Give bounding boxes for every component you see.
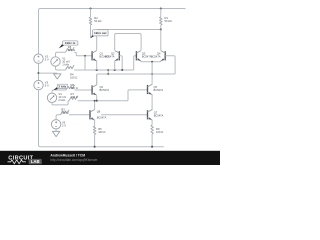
wire Q4 collector drop [160,30,162,51]
resistor R9 label [156,127,163,134]
wire R9 to bottom rail [151,134,153,147]
wire Q7 emitter down [151,120,153,125]
transistor Q6 label [100,85,110,92]
svg-text:BC547A: BC547A [154,113,164,117]
node R9 bottom junction [151,146,153,148]
resistor R3 label [61,108,68,115]
resistor R7 label [71,92,78,99]
transistor Q2 label [105,51,115,58]
transistor Q7 label [154,110,164,117]
ground G2 [52,131,59,136]
resistor R3 [61,110,70,115]
wire Q5 collector [151,83,153,85]
resistor R5 [93,126,96,135]
svg-text:100 Ω: 100 Ω [61,111,68,115]
transistor Q4 label [151,51,161,58]
node stub bottom [107,73,109,75]
wire Q2 emitter drop [114,61,116,70]
svg-text:BC547A: BC547A [105,54,115,58]
voltage source V2 label [45,54,49,61]
wire inner collector loop y=33 [115,34,141,51]
node tail / common rail junction [151,73,153,75]
svg-text:Q8: Q8 [97,110,101,114]
svg-text:BC547A: BC547A [154,88,164,92]
node junction riser/base [84,55,86,57]
node junction left rail / gnd branch [37,72,39,74]
wire Q3 emitter to Q4 emitter [141,60,161,63]
node Q1 emitter junction [96,69,98,71]
attribution line 2 [50,158,97,162]
resistor R2 lead upper [90,9,92,18]
circuitlab logo text CIRCUIT [8,155,33,161]
wire left rail V3 down to bottom rail [39,90,164,147]
resistor R4 label [70,73,77,80]
resistor R5 label [98,127,105,134]
node Q2 emitter junction [114,69,116,71]
wire R7 rail to corner [78,100,128,102]
transistor Q3 [136,51,141,61]
wire R3 to Q8 base [69,114,90,116]
transistor Q8 label name [97,110,101,114]
svg-text:BC547A: BC547A [97,115,107,119]
wire emitter rail up to Q3 base [134,56,137,70]
resistor R2 [89,17,92,25]
resistor R4 [66,65,75,70]
voltage source V2 [34,54,43,63]
ground G1 [54,74,61,79]
wire emitter rail [85,69,134,71]
voltage source V3 label [45,81,49,88]
svg-text:BC547A: BC547A [151,54,161,58]
resistor R2 lead lower [90,25,92,38]
voltage source V4 (signal) [47,93,56,102]
svg-text:1 kHz: 1 kHz [62,62,70,66]
wire Q2 base to right riser [119,56,122,70]
watermark bar background [0,151,220,165]
transistor Q8 [90,110,95,120]
node Q6 emitter junction [96,100,98,102]
svg-text:1kHz out: 1kHz out [94,31,106,35]
resistor R8 label [71,83,78,90]
wire R4 to base-node riser [74,69,85,71]
wire V1 bottom lead [56,66,66,70]
svg-text:5 V: 5 V [45,84,49,88]
transistor Q1 label [100,51,110,58]
wire Q7 base wire [101,114,148,116]
wire Q5 emitter down to Q7 collector [151,94,153,110]
svg-text:2 V: 2 V [62,123,66,127]
wire V4 bottom lead [52,101,69,105]
wire Q1 emitter drop [96,61,98,70]
svg-text:2 kHz: 2 kHz [58,98,66,102]
svg-text:5 V: 5 V [45,57,49,61]
svg-text:100 Ω: 100 Ω [98,130,105,134]
transistor Q1 [92,51,97,61]
voltage source V5 [51,120,60,129]
transistor Q6 [92,85,97,95]
wire outer collector loop y=29 [97,30,161,51]
transistor Q2 [115,51,120,61]
svg-text:50 kΩ: 50 kΩ [94,19,101,23]
node Q8 collector junction [94,100,96,102]
voltage source V3 [34,80,43,89]
resistor R1 lead upper [160,9,162,18]
resistor R7 [69,96,78,101]
resistor R6 [66,47,75,52]
wire R8 to Q6 base [75,89,93,91]
attribution line 1 [50,154,85,158]
resistor R2 label [94,16,101,23]
svg-text:50 kΩ: 50 kΩ [165,19,172,23]
circuitlab logo LAB box [29,159,42,164]
wire R6 to Q1 base (jog down) [74,52,92,56]
transistor Q4 [161,51,166,61]
wire gnd branch [39,72,58,74]
transistor Q5 label [154,85,164,92]
flag out (net flag on R2 bottom node) [91,30,109,38]
resistor R8 [66,85,75,90]
wire Q6 collector up to common rail [96,74,98,85]
wire R1 to node A [160,25,162,30]
wire stub between rails [107,70,109,74]
transistor Q7 [148,110,153,120]
svg-text:LAB: LAB [31,159,40,164]
wire V4 top lead [52,90,66,93]
node junction top rail / R1 [160,7,162,9]
wire V2 to V3 [38,63,40,80]
wire Q8 emitter down [94,120,96,126]
wire Q4 base bracket [165,56,175,74]
wire top supply rail with left corner down to V2 [39,9,186,55]
wire V5 top lead [56,115,60,120]
resistor R1 label [165,16,172,23]
wire riser x=84.5 to base wire [84,56,86,70]
node R5 bottom junction [94,146,96,148]
voltage source V1 label [62,56,70,66]
svg-text:BC547A: BC547A [100,88,110,92]
resistor R6 label [68,45,75,52]
node Q2 base junction [121,69,123,71]
voltage source V4 label [58,92,66,102]
svg-text:1kHz in: 1kHz in [65,41,76,45]
voltage source V1 (signal) [51,57,60,66]
resistor R9 [151,125,154,134]
node stub top [107,69,109,71]
flag in1 [59,41,78,49]
svg-text:100 Ω: 100 Ω [156,130,163,134]
voltage source V5 label [62,120,66,127]
wire common rail [97,74,175,85]
wire tail down to Q5 collector [151,62,153,83]
transistor Q3 label [142,51,152,58]
wire R5 to bottom rail [94,135,96,147]
wire V1 top lead [56,52,66,57]
circuitlab logo resistor zigzag [8,160,26,164]
transistor Q5 [148,84,153,94]
svg-text:100 Ω: 100 Ω [70,76,77,80]
svg-text:http://circuitlab.com/cpq9Kfsm: http://circuitlab.com/cpq9Kfsmum [50,158,97,162]
flag in2 [53,84,67,90]
node pair2 emitter/tail junction [151,61,153,63]
wire V5 bottom lead [55,129,57,131]
svg-text:100 Ω: 100 Ω [71,95,78,99]
wire R7-node up to Q5 base [128,90,148,101]
svg-text:2 kHz: 2 kHz [59,84,67,88]
svg-text:100 Ω: 100 Ω [71,86,78,90]
node A junction (R1 / loop / Q4 collector) [160,28,162,30]
svg-text:100 Ω: 100 Ω [68,48,75,52]
wire Q6 emitter drop [96,95,98,100]
resistor R1 [160,17,163,25]
transistor Q8 label value [97,115,107,119]
wire Q8 collector up [94,101,96,110]
node junction top rail / R2 [89,7,91,9]
